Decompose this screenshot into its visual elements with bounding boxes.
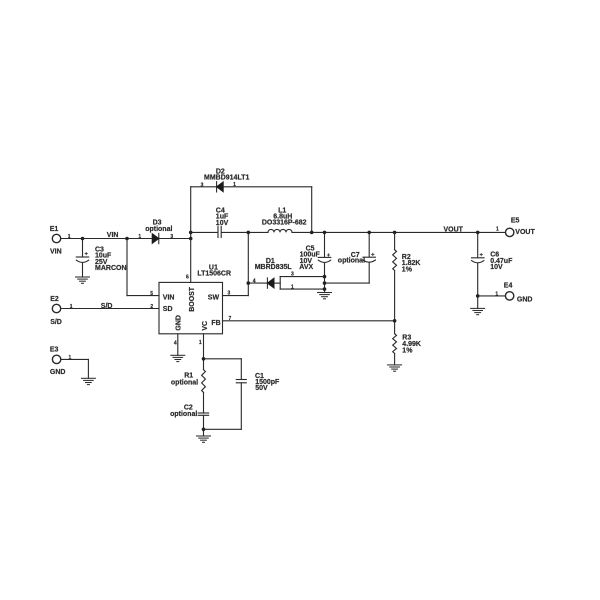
svg-text:1: 1 [69, 355, 72, 361]
svg-text:10V: 10V [216, 220, 229, 227]
svg-text:3: 3 [291, 272, 294, 278]
svg-text:GND: GND [517, 297, 533, 304]
svg-text:GND: GND [50, 369, 66, 376]
svg-text:1: 1 [496, 227, 499, 233]
svg-text:optional: optional [170, 411, 197, 418]
svg-text:3: 3 [201, 182, 204, 188]
svg-text:1: 1 [233, 182, 236, 188]
svg-text:AVX: AVX [299, 264, 313, 271]
svg-text:2: 2 [150, 304, 153, 310]
svg-text:1%: 1% [402, 266, 413, 273]
svg-text:VOUT: VOUT [444, 227, 464, 234]
svg-text:1: 1 [199, 340, 202, 346]
svg-text:7: 7 [229, 316, 232, 322]
svg-text:E3: E3 [50, 346, 59, 353]
svg-text:BOOST: BOOST [189, 286, 196, 312]
svg-text:FB: FB [211, 320, 220, 327]
svg-text:SD: SD [163, 306, 173, 313]
svg-text:1: 1 [138, 234, 141, 240]
svg-text:optional: optional [145, 226, 172, 233]
svg-text:VIN: VIN [107, 232, 119, 239]
svg-text:E5: E5 [511, 217, 520, 224]
svg-text:S/D: S/D [101, 303, 113, 310]
svg-text:E4: E4 [504, 283, 513, 290]
svg-text:VIN: VIN [50, 248, 62, 255]
svg-text:VOUT: VOUT [515, 229, 535, 236]
svg-text:4: 4 [253, 279, 256, 285]
svg-text:VC: VC [202, 321, 209, 331]
svg-text:50V: 50V [255, 385, 268, 392]
svg-text:S/D: S/D [50, 319, 62, 326]
svg-text:1: 1 [68, 234, 71, 240]
svg-text:1%: 1% [402, 347, 413, 354]
svg-text:GND: GND [176, 315, 183, 331]
svg-text:R1: R1 [184, 372, 193, 379]
svg-text:4: 4 [174, 340, 177, 346]
svg-text:MMBD914LT1: MMBD914LT1 [204, 175, 249, 182]
svg-text:1: 1 [70, 304, 73, 310]
svg-text:LT1506CR: LT1506CR [197, 270, 231, 277]
svg-text:3: 3 [228, 291, 231, 297]
svg-text:optional: optional [171, 379, 198, 386]
svg-text:SW: SW [208, 294, 220, 301]
svg-text:VIN: VIN [163, 294, 175, 301]
svg-text:E1: E1 [50, 226, 59, 233]
svg-text:5: 5 [150, 291, 153, 297]
svg-text:MARCON: MARCON [95, 265, 127, 272]
svg-text:optional: optional [338, 258, 365, 265]
svg-text:MBRD835L: MBRD835L [255, 264, 293, 271]
svg-text:1: 1 [291, 284, 294, 290]
svg-text:10V: 10V [490, 264, 503, 271]
svg-text:DO3316P-682: DO3316P-682 [262, 220, 307, 227]
svg-text:1: 1 [495, 291, 498, 297]
svg-text:E2: E2 [50, 296, 59, 303]
svg-text:3: 3 [170, 234, 173, 240]
svg-text:6: 6 [186, 275, 189, 281]
